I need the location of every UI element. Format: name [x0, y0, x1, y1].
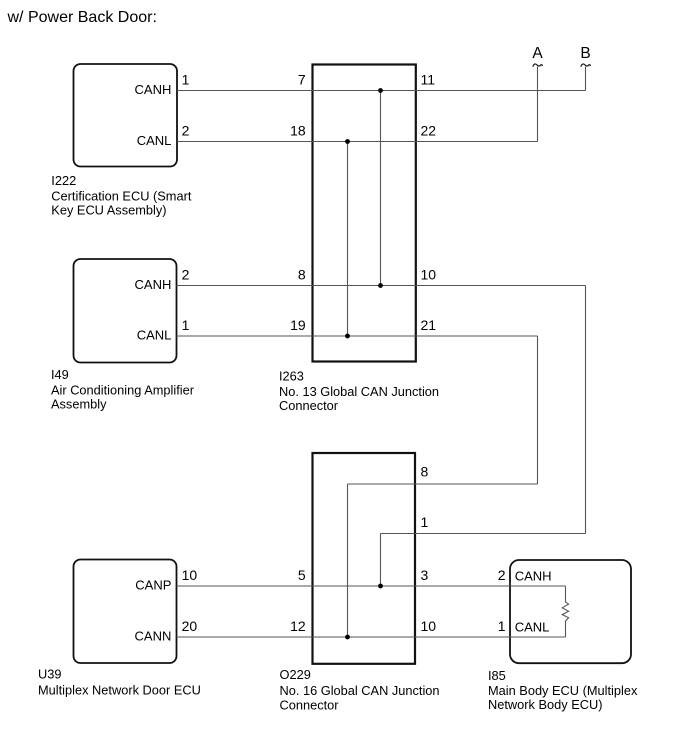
svg-text:1: 1 — [498, 618, 506, 634]
svg-text:Main Body ECU (Multiplex: Main Body ECU (Multiplex — [488, 683, 638, 698]
svg-text:18: 18 — [290, 123, 306, 139]
svg-text:10: 10 — [182, 567, 198, 583]
svg-text:10: 10 — [421, 618, 437, 634]
svg-text:CANL: CANL — [515, 620, 550, 635]
svg-text:3: 3 — [421, 567, 429, 583]
svg-text:1: 1 — [421, 514, 429, 530]
svg-text:Assembly: Assembly — [51, 397, 107, 412]
svg-text:Multiplex Network Door ECU: Multiplex Network Door ECU — [38, 683, 201, 698]
svg-text:I49: I49 — [51, 367, 69, 382]
svg-text:No. 16 Global CAN Junction: No. 16 Global CAN Junction — [280, 683, 440, 698]
svg-text:Connector: Connector — [280, 697, 340, 712]
svg-text:21: 21 — [421, 317, 437, 333]
svg-text:7: 7 — [298, 72, 306, 88]
svg-text:I222: I222 — [51, 173, 76, 188]
svg-text:Network Body ECU): Network Body ECU) — [488, 697, 603, 712]
svg-text:Certification ECU (Smart: Certification ECU (Smart — [51, 189, 192, 204]
svg-text:I85: I85 — [488, 668, 506, 683]
svg-text:10: 10 — [421, 267, 437, 283]
svg-text:11: 11 — [421, 72, 436, 88]
svg-text:Connector: Connector — [279, 398, 339, 413]
svg-text:CANH: CANH — [515, 569, 552, 584]
svg-text:I263: I263 — [279, 368, 304, 383]
svg-text:w/ Power Back Door:: w/ Power Back Door: — [7, 9, 157, 26]
svg-text:1: 1 — [182, 317, 190, 333]
svg-text:Air Conditioning Amplifier: Air Conditioning Amplifier — [51, 383, 195, 398]
svg-text:CANH: CANH — [135, 277, 172, 292]
svg-text:22: 22 — [421, 123, 437, 139]
svg-text:CANH: CANH — [135, 82, 172, 97]
svg-text:20: 20 — [182, 618, 198, 634]
svg-text:1: 1 — [182, 72, 190, 88]
svg-text:12: 12 — [290, 618, 306, 634]
svg-text:O229: O229 — [280, 667, 311, 682]
svg-text:CANP: CANP — [135, 578, 171, 593]
svg-text:2: 2 — [182, 123, 190, 139]
svg-text:CANL: CANL — [137, 133, 172, 148]
svg-text:19: 19 — [290, 317, 306, 333]
svg-text:2: 2 — [182, 267, 190, 283]
svg-text:8: 8 — [421, 464, 429, 480]
svg-text:2: 2 — [498, 567, 506, 583]
svg-text:8: 8 — [298, 267, 306, 283]
svg-text:No. 13 Global CAN Junction: No. 13 Global CAN Junction — [279, 384, 439, 399]
svg-text:5: 5 — [298, 567, 306, 583]
svg-text:CANL: CANL — [137, 328, 172, 343]
svg-text:U39: U39 — [38, 666, 61, 681]
svg-text:Key ECU Assembly): Key ECU Assembly) — [51, 203, 166, 218]
svg-text:A: A — [532, 45, 543, 62]
svg-text:B: B — [580, 45, 590, 62]
svg-text:CANN: CANN — [135, 629, 172, 644]
